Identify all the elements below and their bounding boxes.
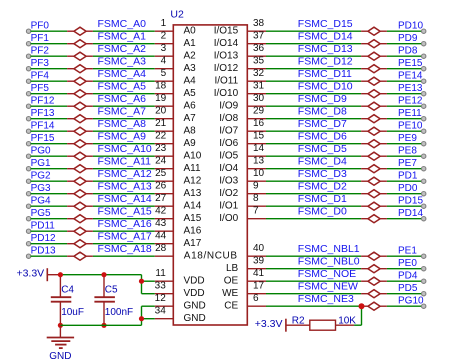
svg-text:29: 29	[253, 105, 265, 116]
svg-text:A8: A8	[184, 126, 197, 137]
wire to GND pin 34	[142, 318, 155, 320]
diamond jumper on net FSMC_A12	[67, 177, 93, 185]
svg-text:U2: U2	[170, 9, 184, 21]
junction C4 top	[58, 272, 63, 277]
U2 pin 21 stub	[155, 118, 174, 131]
U2 pin 4 stub	[155, 55, 174, 68]
wire PF5 to diamond	[31, 93, 68, 95]
svg-text:16: 16	[253, 118, 265, 129]
svg-text:A11: A11	[184, 163, 201, 174]
wire pin 6 to diamond	[266, 305, 361, 307]
U2 pin 3 stub	[155, 43, 174, 56]
svg-text:26: 26	[155, 180, 167, 191]
port PG4	[26, 196, 51, 209]
svg-text:42: 42	[155, 205, 167, 216]
svg-text:FSMC_NE3: FSMC_NE3	[298, 293, 354, 305]
svg-text:I/O14: I/O14	[214, 38, 239, 49]
port PG1	[26, 158, 51, 171]
svg-text:PD5: PD5	[398, 283, 418, 294]
svg-text:2: 2	[161, 30, 167, 41]
diamond jumper on net FSMC_D13	[361, 52, 387, 60]
diamond jumper on net FSMC_A5	[67, 90, 93, 98]
U2 pin 44 stub	[155, 230, 174, 243]
diamond jumper on net FSMC_A2	[67, 52, 93, 60]
capacitor C4	[51, 275, 72, 326]
svg-text:PF1: PF1	[31, 33, 50, 44]
U2 pin 12 stub (left power)	[155, 293, 174, 306]
svg-text:27: 27	[155, 193, 167, 204]
svg-text:PG1: PG1	[31, 158, 51, 169]
svg-text:PD12: PD12	[31, 233, 56, 244]
wire diamond to port PD4	[387, 280, 422, 282]
svg-text:37: 37	[253, 30, 265, 41]
diamond jumper on net FSMC_D1	[361, 202, 387, 210]
wire diamond to U2 pin 3	[93, 55, 155, 57]
svg-text:FSMC_A16: FSMC_A16	[98, 218, 152, 230]
diamond jumper on net FSMC_A18	[67, 252, 93, 260]
svg-text:PF14: PF14	[31, 121, 55, 132]
port PF0	[26, 21, 49, 34]
svg-text:9: 9	[253, 180, 259, 191]
svg-text:18: 18	[155, 80, 167, 91]
svg-text:PD9: PD9	[398, 33, 418, 44]
diamond jumper on net FSMC_D2	[361, 190, 387, 198]
svg-text:I/O8: I/O8	[219, 113, 238, 124]
U2 pin 34 stub (left power)	[155, 305, 174, 318]
port PE0	[398, 258, 426, 271]
wire pin 10 to diamond	[266, 180, 361, 182]
diamond jumper on net FSMC_D8	[361, 115, 387, 123]
wire diamond to port PD1	[387, 180, 422, 182]
wire diamond to port PD15	[387, 205, 422, 207]
svg-text:FSMC_D11: FSMC_D11	[298, 68, 352, 80]
diamond jumper on net FSMC_D10	[361, 90, 387, 98]
junction	[139, 316, 144, 321]
svg-text:I/O15: I/O15	[214, 26, 239, 37]
wire PG5 to diamond	[31, 218, 68, 220]
diamond jumper on net FSMC_A3	[67, 65, 93, 73]
svg-text:LB: LB	[226, 263, 239, 274]
diamond jumper on net FSMC_A4	[67, 77, 93, 85]
junction C5 bottom	[101, 323, 106, 328]
svg-text:FSMC_NBL1: FSMC_NBL1	[298, 243, 360, 255]
wire diamond to U2 pin 21	[93, 130, 155, 132]
svg-text:PF5: PF5	[31, 83, 50, 94]
port PD8	[398, 46, 426, 59]
diamond jumper on net FSMC_NE3	[361, 302, 387, 310]
svg-text:A13: A13	[184, 188, 202, 199]
svg-text:PE12: PE12	[398, 96, 423, 107]
diamond jumper on net FSMC_D14	[361, 40, 387, 48]
svg-text:A9: A9	[184, 138, 197, 149]
wire PF15 to diamond	[31, 143, 68, 145]
svg-text:PE13: PE13	[398, 83, 423, 94]
wire PD11 to diamond	[31, 230, 68, 232]
svg-text:FSMC_NOE: FSMC_NOE	[298, 268, 356, 280]
svg-text:FSMC_D15: FSMC_D15	[298, 18, 353, 30]
resistor R2	[286, 320, 354, 330]
port PD12	[26, 233, 56, 246]
svg-text:OE: OE	[224, 276, 239, 287]
U2 pin 25 stub	[155, 168, 174, 181]
diamond jumper on net FSMC_D9	[361, 102, 387, 110]
svg-text:I/O11: I/O11	[214, 76, 238, 87]
svg-text:A10: A10	[184, 151, 202, 162]
wire pin 40 to diamond	[266, 255, 361, 257]
port PF2	[26, 46, 49, 59]
svg-text:19: 19	[155, 93, 167, 104]
svg-text:10uF: 10uF	[61, 307, 84, 318]
wire diamond to U2 pin 20	[93, 118, 155, 120]
svg-text:A5: A5	[184, 88, 197, 99]
port PD0	[398, 183, 426, 196]
port PE9	[398, 133, 426, 146]
junction C4 bottom	[58, 323, 63, 328]
svg-text:35: 35	[253, 55, 265, 66]
svg-text:A7: A7	[184, 113, 197, 124]
svg-text:PD14: PD14	[398, 208, 423, 219]
diamond jumper on net FSMC_D0	[361, 215, 387, 223]
svg-text:PF2: PF2	[31, 46, 50, 57]
svg-text:34: 34	[155, 305, 167, 316]
svg-text:1: 1	[161, 18, 167, 29]
port PG5	[26, 208, 51, 221]
U2 pin 20 stub	[155, 105, 174, 118]
svg-text:PE0: PE0	[398, 258, 417, 269]
port PD1	[398, 171, 426, 184]
U2 pin 43 stub	[155, 218, 174, 231]
svg-text:32: 32	[253, 68, 265, 79]
svg-text:I/O1: I/O1	[219, 201, 238, 212]
svg-text:23: 23	[155, 143, 167, 154]
U2 pin 40 stub (right)	[247, 243, 266, 256]
svg-text:I/O10: I/O10	[214, 88, 239, 99]
diamond jumper on net FSMC_NEW	[361, 290, 387, 298]
svg-text:WE: WE	[222, 288, 238, 299]
diamond jumper on net FSMC_A6	[67, 102, 93, 110]
wire pin 15 to diamond	[266, 143, 361, 145]
wire diamond to U2 pin 4	[93, 68, 155, 70]
svg-text:VDD: VDD	[184, 288, 205, 299]
svg-text:VDD: VDD	[184, 276, 205, 287]
wire diamond to port PE1	[387, 255, 422, 257]
port PD14	[398, 208, 426, 221]
U2 pin 16 stub (right)	[247, 118, 266, 131]
U2 pin 37 stub (right)	[247, 30, 266, 43]
wire diamond to port PE12	[387, 105, 422, 107]
wire R2 to net FSMC_NE3	[354, 306, 361, 325]
wire pin 7 to diamond	[266, 218, 361, 220]
wire diamond to U2 pin 23	[93, 155, 155, 157]
svg-text:I/O3: I/O3	[219, 176, 238, 187]
wire PF1 to diamond	[31, 43, 68, 45]
svg-text:FSMC_D6: FSMC_D6	[298, 130, 347, 142]
svg-text:FSMC_A11: FSMC_A11	[98, 155, 152, 167]
svg-text:14: 14	[253, 143, 265, 154]
svg-text:+3.3V: +3.3V	[16, 268, 44, 280]
svg-text:C4: C4	[61, 285, 74, 296]
diamond jumper on net FSMC_NBL0	[361, 265, 387, 273]
svg-text:PE8: PE8	[398, 146, 417, 157]
svg-text:PE11: PE11	[398, 108, 422, 119]
wire diamond to port PD5	[387, 293, 422, 295]
wire diamond to U2 pin 26	[93, 193, 155, 195]
U2 pin 24 stub	[155, 155, 174, 168]
svg-text:PD0: PD0	[398, 183, 418, 194]
port PE12	[398, 96, 426, 109]
wire +3.3V rail	[60, 274, 141, 276]
svg-text:7: 7	[253, 205, 259, 216]
port PD9	[398, 33, 426, 46]
svg-text:GND: GND	[184, 313, 206, 324]
wire diamond to port PG10	[387, 305, 422, 307]
svg-text:FSMC_D1: FSMC_D1	[298, 193, 347, 205]
diamond jumper on net FSMC_A17	[67, 240, 93, 248]
svg-text:A14: A14	[184, 201, 202, 212]
diamond jumper on net FSMC_D5	[361, 152, 387, 160]
U2 pin 7 stub (right)	[247, 205, 266, 218]
svg-text:8: 8	[253, 193, 259, 204]
svg-text:A6: A6	[184, 101, 197, 112]
port PE13	[398, 83, 426, 96]
svg-text:28: 28	[155, 243, 167, 254]
U2 pin 10 stub (right)	[247, 168, 266, 181]
wire diamond to U2 pin 44	[93, 243, 155, 245]
diamond jumper on net FSMC_D3	[361, 177, 387, 185]
wire diamond to U2 pin 25	[93, 180, 155, 182]
svg-text:5: 5	[161, 68, 167, 79]
svg-text:A16: A16	[184, 226, 202, 237]
wire to VDD pin 11	[142, 280, 155, 282]
U2 pin 19 stub	[155, 93, 174, 106]
wire PF4 to diamond	[31, 80, 68, 82]
wire pin 8 to diamond	[266, 205, 361, 207]
wire diamond to port PE9	[387, 143, 422, 145]
wire PF12 to diamond	[31, 105, 68, 107]
svg-text:FSMC_A0: FSMC_A0	[98, 18, 147, 30]
U2 pin 11 stub (left power)	[155, 268, 174, 281]
svg-text:FSMC_A17: FSMC_A17	[98, 230, 152, 242]
svg-text:12: 12	[155, 293, 167, 304]
wire pin 35 to diamond	[266, 68, 361, 70]
port PF13	[26, 108, 55, 121]
port PE14	[398, 71, 426, 84]
wire diamond to port PE13	[387, 93, 422, 95]
svg-text:10K: 10K	[338, 316, 356, 327]
wire pin 14 to diamond	[266, 155, 361, 157]
svg-text:PE15: PE15	[398, 58, 423, 69]
svg-text:36: 36	[253, 43, 265, 54]
wire diamond to U2 pin 28	[93, 255, 155, 257]
wire diamond to U2 pin 19	[93, 105, 155, 107]
svg-text:44: 44	[155, 230, 167, 241]
U2 pin 1 stub	[155, 18, 174, 31]
svg-text:I/O13: I/O13	[214, 51, 239, 62]
svg-text:FSMC_A15: FSMC_A15	[98, 205, 152, 217]
svg-text:R2: R2	[292, 316, 305, 327]
wire diamond to port PD8	[387, 55, 422, 57]
svg-text:PG0: PG0	[31, 146, 51, 157]
svg-text:PG3: PG3	[31, 183, 51, 194]
svg-text:FSMC_A8: FSMC_A8	[98, 118, 147, 130]
ground symbol	[47, 325, 74, 348]
svg-text:PD15: PD15	[398, 196, 423, 207]
wire pin 38 to diamond	[266, 30, 361, 32]
svg-text:40: 40	[253, 243, 265, 254]
wire PG0 to diamond	[31, 155, 68, 157]
svg-text:21: 21	[155, 118, 167, 129]
wire VDD drop	[141, 275, 143, 294]
U2 pin 14 stub (right)	[247, 143, 266, 156]
wire diamond to port PE10	[387, 130, 422, 132]
port PD15	[398, 196, 426, 209]
svg-text:FSMC_D10: FSMC_D10	[298, 80, 353, 92]
U2 pin 36 stub (right)	[247, 43, 266, 56]
port PE8	[398, 146, 426, 159]
svg-text:I/O0: I/O0	[219, 213, 238, 224]
wire pin 30 to diamond	[266, 105, 361, 107]
svg-text:FSMC_NEW: FSMC_NEW	[298, 280, 358, 292]
U2 pin 15 stub (right)	[247, 130, 266, 143]
diamond jumper on net FSMC_D11	[361, 77, 387, 85]
svg-text:PF0: PF0	[31, 21, 50, 32]
svg-text:A1: A1	[184, 38, 197, 49]
wire diamond to U2 pin 24	[93, 168, 155, 170]
svg-text:I/O2: I/O2	[219, 188, 238, 199]
svg-text:A3: A3	[184, 63, 197, 74]
wire pin 9 to diamond	[266, 193, 361, 195]
wire pin 16 to diamond	[266, 130, 361, 132]
svg-text:I/O9: I/O9	[219, 101, 238, 112]
svg-text:PE10: PE10	[398, 121, 423, 132]
svg-text:A17: A17	[184, 238, 202, 249]
wire diamond to port PD0	[387, 193, 422, 195]
diamond jumper on net FSMC_A16	[67, 227, 93, 235]
diamond jumper on net FSMC_D6	[361, 140, 387, 148]
svg-text:30: 30	[253, 93, 265, 104]
svg-text:GND: GND	[49, 351, 71, 362]
junction on FSMC_NE3	[359, 303, 365, 309]
diamond jumper on net FSMC_D4	[361, 165, 387, 173]
wire diamond to U2 pin 2	[93, 43, 155, 45]
svg-text:39: 39	[253, 255, 265, 266]
svg-text:FSMC_D12: FSMC_D12	[298, 55, 353, 67]
svg-text:4: 4	[161, 55, 167, 66]
wire diamond to port PD14	[387, 218, 422, 220]
svg-text:FSMC_A5: FSMC_A5	[98, 80, 147, 92]
diamond jumper on net FSMC_A9	[67, 140, 93, 148]
svg-text:FSMC_A12: FSMC_A12	[98, 168, 152, 180]
svg-text:I/O6: I/O6	[219, 138, 238, 149]
wire PG2 to diamond	[31, 180, 68, 182]
power port +3.3V (right)	[255, 318, 286, 332]
svg-text:24: 24	[155, 155, 167, 166]
wire diamond to U2 pin 42	[93, 218, 155, 220]
U2 pin 17 stub (right)	[247, 280, 266, 293]
U2 pin 2 stub	[155, 30, 174, 43]
svg-text:FSMC_A7: FSMC_A7	[98, 105, 147, 117]
svg-text:FSMC_A9: FSMC_A9	[98, 130, 147, 142]
U2 pin 41 stub (right)	[247, 268, 266, 281]
diamond jumper on net FSMC_A1	[67, 40, 93, 48]
svg-text:PE1: PE1	[398, 246, 417, 257]
svg-text:A12: A12	[184, 176, 202, 187]
wire PD12 to diamond	[31, 243, 68, 245]
svg-text:PF4: PF4	[31, 71, 50, 82]
wire GND rail	[60, 324, 141, 326]
power port +3.3V (left)	[16, 268, 47, 282]
U2 pin 5 stub	[155, 68, 174, 81]
wire pin 29 to diamond	[266, 118, 361, 120]
U2 pin 31 stub (right)	[247, 80, 266, 93]
wire diamond to port PD10	[387, 30, 422, 32]
svg-text:A15: A15	[184, 213, 202, 224]
svg-text:PG4: PG4	[31, 196, 51, 207]
svg-text:17: 17	[253, 280, 265, 291]
junction	[139, 279, 144, 284]
svg-text:PG5: PG5	[31, 208, 51, 219]
U2 pin 42 stub	[155, 205, 174, 218]
diamond jumper on net FSMC_D7	[361, 127, 387, 135]
U2 pin 27 stub	[155, 193, 174, 206]
svg-text:PD11: PD11	[31, 221, 56, 232]
svg-text:PD10: PD10	[398, 21, 423, 32]
diamond jumper on net FSMC_NBL1	[361, 252, 387, 260]
svg-text:C5: C5	[105, 285, 118, 296]
svg-text:CE: CE	[224, 301, 238, 312]
svg-text:FSMC_A6: FSMC_A6	[98, 93, 147, 105]
svg-text:PG10: PG10	[398, 296, 424, 307]
port PG3	[26, 183, 51, 196]
port PD5	[398, 283, 426, 296]
svg-text:PF15: PF15	[31, 133, 55, 144]
svg-text:15: 15	[253, 130, 265, 141]
svg-text:I/O7: I/O7	[219, 126, 238, 137]
wire diamond to port PE8	[387, 155, 422, 157]
wire diamond to port PE7	[387, 168, 422, 170]
wire diamond to U2 pin 27	[93, 205, 155, 207]
wire PF2 to diamond	[31, 55, 68, 57]
capacitor C5	[94, 275, 115, 326]
svg-text:FSMC_D3: FSMC_D3	[298, 168, 347, 180]
port PD4	[398, 271, 426, 284]
svg-text:PF3: PF3	[31, 58, 50, 69]
diamond jumper on net FSMC_A11	[67, 165, 93, 173]
U2 pin 28 stub	[155, 243, 174, 256]
U2 pin 29 stub (right)	[247, 105, 266, 118]
svg-text:3: 3	[161, 43, 167, 54]
svg-text:PD13: PD13	[31, 246, 56, 257]
diamond jumper on net FSMC_A15	[67, 215, 93, 223]
U2 pin 9 stub (right)	[247, 180, 266, 193]
wire diamond to U2 pin 22	[93, 143, 155, 145]
wire PF13 to diamond	[31, 118, 68, 120]
diamond jumper on net FSMC_A0	[67, 27, 93, 35]
port PF14	[26, 121, 55, 134]
diamond jumper on net FSMC_D15	[361, 27, 387, 35]
svg-text:PD4: PD4	[398, 271, 418, 282]
U2 pin 26 stub	[155, 180, 174, 193]
svg-text:PG2: PG2	[31, 171, 51, 182]
svg-text:FSMC_D14: FSMC_D14	[298, 30, 353, 42]
svg-text:13: 13	[253, 155, 265, 166]
svg-text:FSMC_D7: FSMC_D7	[298, 118, 347, 130]
svg-text:41: 41	[253, 268, 265, 279]
U2 pin 33 stub (left power)	[155, 280, 174, 293]
port PG2	[26, 171, 51, 184]
port PF4	[26, 71, 49, 84]
U2 pin 13 stub (right)	[247, 155, 266, 168]
